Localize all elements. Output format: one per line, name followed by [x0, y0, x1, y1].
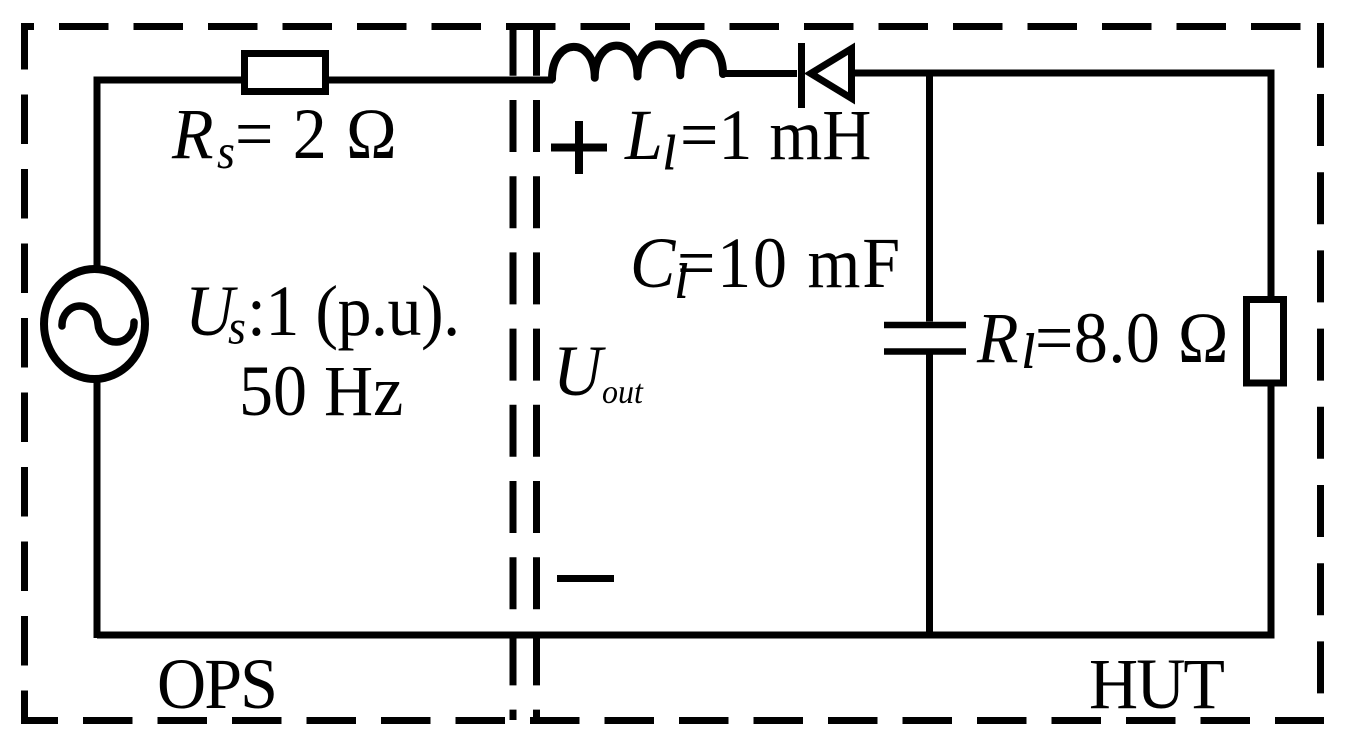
AC source sine wave	[62, 306, 134, 342]
svg-text::1 (p.u).: :1 (p.u).	[247, 271, 460, 351]
svg-text:HUT: HUT	[1089, 644, 1224, 724]
wire Rs to inductor Ll	[329, 77, 553, 84]
wire source top to resistor Rs	[97, 80, 241, 268]
svg-text:s: s	[228, 301, 246, 355]
svg-text:=1 mH: =1 mH	[680, 95, 871, 175]
diode D1 triangle	[804, 43, 855, 105]
svg-text:C: C	[630, 223, 676, 303]
wire bottom rail up to source	[94, 380, 101, 638]
svg-text:l: l	[1022, 325, 1035, 379]
AC source Us circle	[44, 269, 145, 379]
OPS/HUT divider dashed line right	[533, 27, 540, 720]
capacitor Cl bottom plate	[884, 348, 966, 355]
svg-text:=8.0 Ω: =8.0 Ω	[1035, 298, 1229, 378]
wire Rl bottom to bottom rail	[1268, 383, 1275, 635]
plus sign Uout polarity	[551, 121, 607, 174]
inductor Ll	[552, 43, 723, 79]
svg-text:L: L	[624, 95, 663, 175]
resistor Rs	[245, 54, 326, 92]
minus sign Uout polarity	[557, 575, 614, 582]
OPS/HUT divider dashed line left	[510, 27, 517, 720]
svg-text:l: l	[663, 127, 676, 181]
diode D1 cathode bar	[798, 43, 805, 108]
capacitor Cl top plate	[884, 322, 966, 329]
svg-text:s: s	[217, 126, 235, 180]
svg-text:U: U	[553, 331, 606, 411]
svg-text:out: out	[602, 374, 644, 411]
OPS boundary dashed box top edge	[21, 23, 1324, 30]
node junction capacitor branch	[926, 73, 933, 322]
svg-text:=10 mF: =10 mF	[677, 223, 902, 303]
dashed box bottom edge	[21, 717, 1324, 724]
wire diode to top right corner and down to resistor Rl	[853, 73, 1271, 300]
wire inductor to diode	[721, 70, 797, 77]
bottom wire rail	[97, 632, 1275, 639]
wire capacitor bottom to ground rail	[926, 352, 933, 635]
svg-text:= 2 Ω: = 2 Ω	[235, 94, 398, 174]
dashed box left edge	[21, 23, 28, 724]
svg-text:OPS: OPS	[157, 644, 276, 724]
svg-text:R: R	[976, 298, 1019, 378]
dashed box right edge	[1317, 23, 1324, 724]
resistor Rl	[1247, 300, 1284, 384]
svg-text:50 Hz: 50 Hz	[239, 351, 403, 431]
svg-text:R: R	[171, 94, 214, 174]
